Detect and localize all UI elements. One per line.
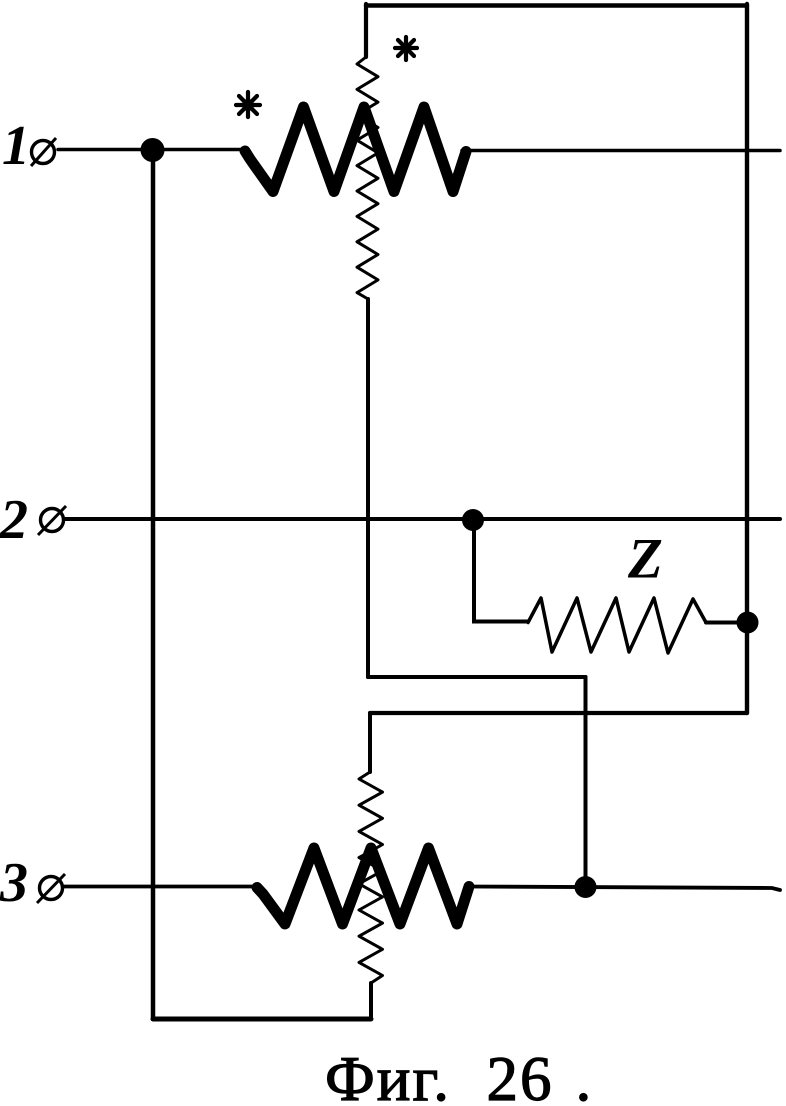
wire: Z right lead — [706, 621, 747, 625]
label: phase 3 phi symbol — [37, 874, 65, 903]
wire: bottom horizontal — [153, 1017, 371, 1022]
polarity asterisk near current coil 1 — [236, 92, 260, 117]
wire: top loop left vertical — [364, 4, 368, 57]
wire: left vertical — [151, 150, 156, 1019]
svg-text:1: 1 — [2, 115, 30, 177]
node dot: junction of phase 3 and mid vertical — [575, 876, 597, 898]
wire: vertical from y=677 to phase 3 — [584, 677, 588, 887]
svg-text:2: 2 — [0, 489, 28, 551]
potential coil (thin zigzag) on phase 1, vertical — [357, 57, 378, 299]
wire: phase line 1 right segment — [462, 149, 780, 153]
potential coil (thin zigzag) on phase 3, vertical — [359, 772, 383, 983]
wire: mid vertical from potential coil 1 down — [366, 299, 370, 677]
wire: phase line 1 left segment — [58, 148, 246, 152]
impedance Z (thin sawtooth zigzag) — [528, 598, 706, 653]
wire: right vertical — [745, 4, 749, 713]
wire: phase line 3 right segment — [466, 887, 780, 891]
label: phase 1 phi symbol — [31, 138, 56, 166]
polarity asterisk near potential coil 1 — [395, 37, 417, 60]
label: phase 2 phi symbol — [38, 506, 66, 535]
wire: vertical below potential coil 2 — [369, 983, 373, 1019]
current coil (thick zigzag) on phase 1 — [245, 107, 466, 192]
svg-text:3: 3 — [0, 852, 28, 914]
wire: top loop horizontal — [366, 3, 746, 7]
wire: horizontal return at y=713 — [370, 711, 747, 715]
node dot: junction of phase 1 and left vertical — [141, 138, 165, 162]
wire: vertical into potential coil 2 — [368, 713, 372, 772]
wire: mid horizontal at y=677 — [368, 675, 586, 679]
node dot: junction of phase 2 and Z branch — [462, 509, 484, 531]
node dot: junction of Z and right vertical — [737, 612, 759, 634]
wire: phase line 3 left segment — [64, 885, 258, 889]
svg-text:Z: Z — [627, 528, 663, 591]
wire: Z branch drop from phase 2 — [474, 520, 528, 622]
svg-text:Фиг. 26.: Фиг. 26. — [325, 1044, 593, 1106]
wire: phase line 2 — [64, 517, 780, 521]
current coil (thick zigzag) on phase 3 — [257, 848, 469, 924]
